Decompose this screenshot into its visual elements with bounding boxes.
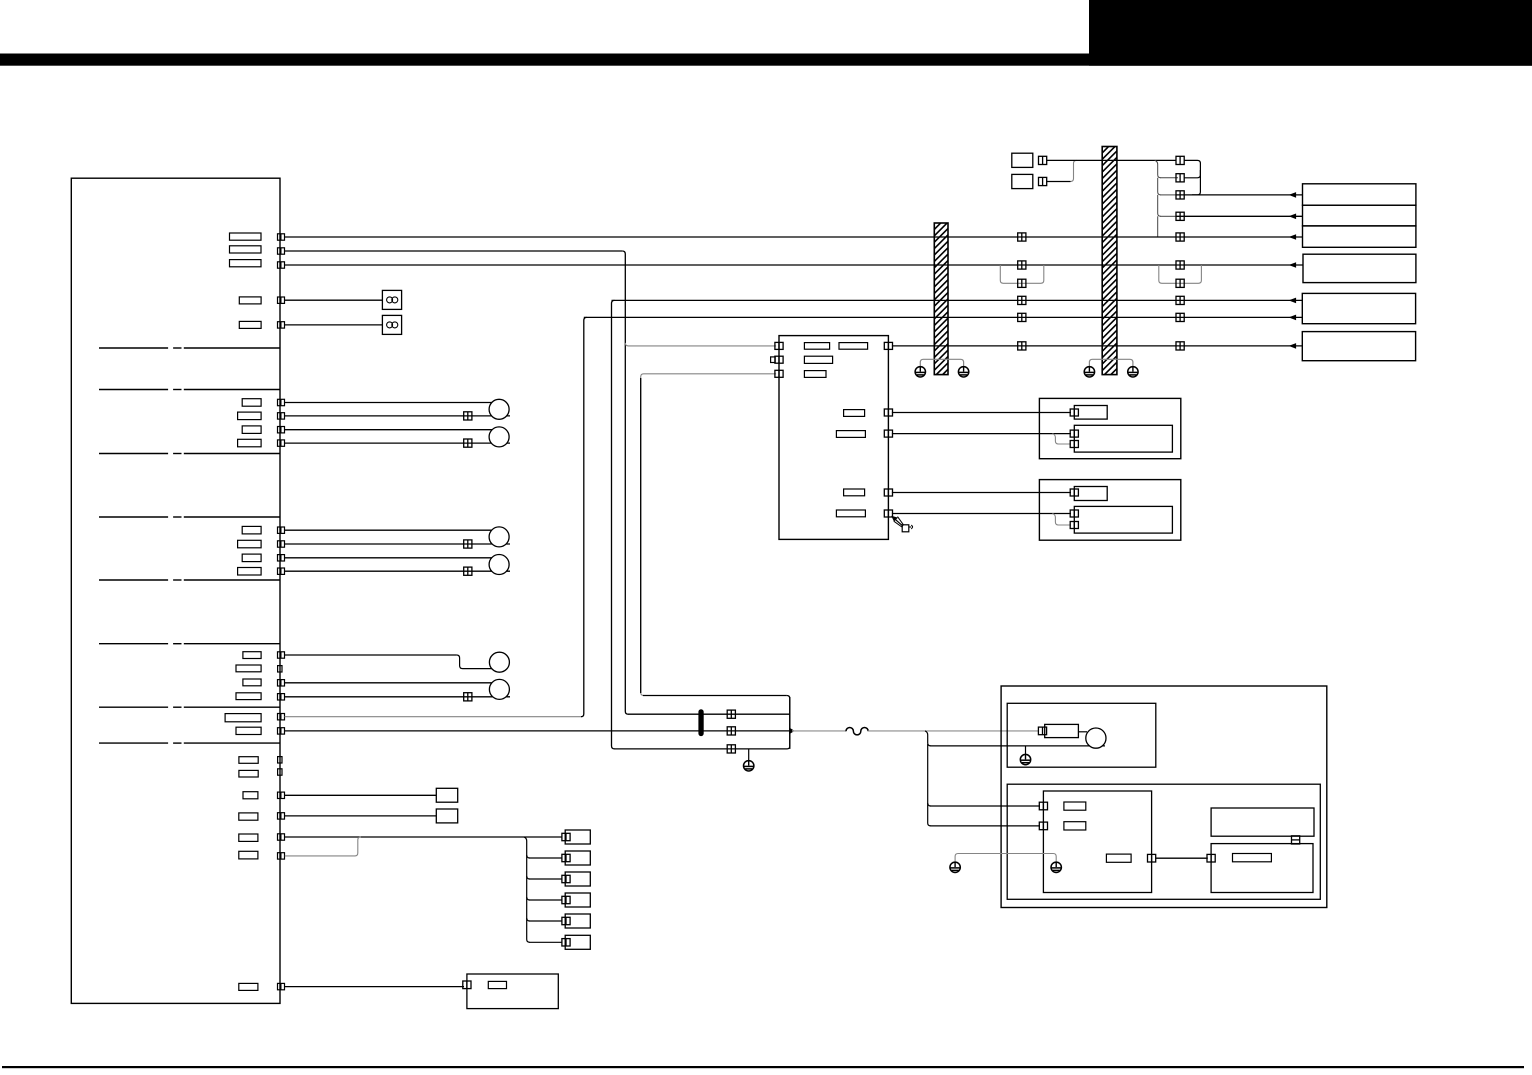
generator label 3: [1106, 854, 1131, 862]
control unit label 2: [839, 343, 868, 350]
ECU section divider 7: [99, 706, 168, 708]
ECU pin label 22: [243, 792, 258, 799]
ECU pin at y=300.2: [278, 297, 285, 303]
ECU pin at y=571.2: [278, 568, 285, 574]
ECU pin at y=696.8: [278, 694, 285, 700]
ECU pin label 9: [238, 439, 262, 447]
generator assembly box: [1007, 784, 1320, 899]
starter ground stub: [1025, 746, 1027, 755]
load box 1: [1303, 184, 1416, 205]
control unit pin3 wire down-feed: [641, 374, 776, 696]
ECU pin label 7: [238, 412, 262, 420]
ground stub on row D: [748, 749, 750, 761]
generator label 1: [1064, 802, 1086, 810]
load box 6: [1302, 332, 1415, 361]
ECU pin label 12: [242, 554, 261, 562]
control unit label 6: [836, 431, 865, 438]
regulator label: [1233, 854, 1272, 862]
wire from K2 joining K1 feed: [1047, 181, 1071, 183]
load box 2: [1303, 205, 1416, 226]
sensor unit 2: [565, 851, 590, 865]
relay module box B outer: [1039, 480, 1180, 541]
ECU pin label 18: [225, 714, 261, 722]
wire row2 connector loop: [1160, 177, 1178, 179]
ECU pin at y=986.6: [278, 983, 285, 989]
wire row5 main feed from ECU pin1 to load box 3: [285, 236, 1303, 238]
control unit right pin 5: [884, 510, 892, 517]
switch box 1: [436, 788, 457, 802]
adjuster arrow at control unit pin 5: [893, 518, 903, 527]
sensor branch wire 5: [529, 920, 562, 922]
relay box K1 top right: [1012, 153, 1033, 167]
connector at relay box K1: [1039, 156, 1047, 164]
page footer rule: [2, 1066, 1524, 1068]
control unit label 1: [804, 343, 829, 350]
ECU pin label 20: [239, 757, 258, 764]
ECU pin at y=837: [278, 834, 285, 840]
ECU pin at y=855.9: [278, 853, 285, 859]
ECU section divider 1: [99, 347, 168, 349]
ECU pin label 15: [236, 665, 261, 672]
junction arrow marker: [789, 728, 794, 735]
load box 3: [1303, 226, 1416, 247]
wire row8 to load box 5 upper: [612, 299, 1303, 301]
ECU pin label 23: [239, 813, 258, 820]
ECU pin at y=655: [278, 652, 285, 658]
ECU pin label 6: [242, 399, 261, 407]
wire to generator connector 2: [930, 825, 1040, 827]
ground bridge at bar 1: [920, 359, 963, 366]
ground at row D: [744, 761, 754, 771]
wire ECU pin y=730.9 main battery feed: [285, 730, 791, 732]
ECU pin label 24: [239, 834, 258, 841]
sensor branch wire 3: [529, 878, 562, 880]
wire to switch box 1: [285, 794, 437, 796]
page header black band: [0, 54, 1532, 66]
lamp B1: [489, 527, 509, 547]
branch vertical to charge boxes: [925, 731, 931, 746]
wire to generator connector 1: [930, 805, 1040, 807]
control unit right pin 1: [884, 342, 892, 349]
ECU pin at y=815.9: [278, 813, 285, 819]
noise filter 2: [382, 315, 401, 334]
ECU pin label 26: [239, 983, 258, 990]
sensor unit 4: [565, 893, 590, 907]
ECU section divider 6: [99, 643, 168, 645]
indicator lamp group C wires: [285, 654, 457, 656]
battery trunk wire with break symbol: [792, 730, 846, 732]
junction rail merge wires: [643, 695, 787, 697]
sensor bus wire from ECU: [285, 836, 563, 838]
ECU section divider 4: [99, 516, 168, 518]
ECU pin at y=429.7: [278, 427, 285, 433]
wire row1 from K1 to right connector: [1047, 159, 1177, 161]
ECU pin label 3: [230, 260, 262, 267]
switch box 2: [436, 809, 457, 823]
relay box K2 top right: [1012, 174, 1033, 188]
box A large component: [1074, 425, 1172, 452]
ECU pin at y=682.8: [278, 680, 285, 686]
gray return wire joining bus: [285, 855, 355, 857]
starter motor circle: [1086, 728, 1106, 748]
ECU main unit box: [71, 178, 280, 1003]
ECU pin at y=730.9: [278, 728, 285, 734]
ECU pin at y=251: [278, 248, 285, 254]
ECU pin label 2: [230, 246, 262, 253]
ECU section divider 2: [99, 389, 168, 391]
diagnostic unit label: [488, 981, 506, 988]
wire row4 to load box 2: [1160, 215, 1176, 217]
ECU pin at y=544: [278, 541, 285, 547]
branch loop in box A: [1052, 434, 1071, 444]
ECU pin label 11: [238, 540, 262, 548]
generator main box: [1043, 791, 1151, 893]
regulator connector: [1207, 854, 1215, 862]
ECU pin at y=716.7: [278, 714, 285, 720]
lamp C1: [489, 652, 509, 672]
connector at relay box K2: [1039, 177, 1047, 185]
control unit right pin 3: [884, 430, 892, 437]
relay module box A outer: [1039, 398, 1180, 458]
ground right of bar 1: [958, 367, 968, 377]
control unit label 8: [836, 510, 865, 517]
load box 5: [1302, 293, 1415, 323]
wire control pin3 to box A large: [892, 433, 1071, 435]
ECU unused pin at y=668.8: [278, 666, 282, 672]
branch to control unit pin1: [625, 343, 776, 346]
box A small component: [1074, 406, 1107, 420]
box B large component: [1074, 506, 1172, 533]
regulator lower box: [1211, 844, 1313, 893]
starter solenoid component: [1045, 724, 1079, 737]
ECU pin label 1: [230, 233, 262, 240]
wire to switch box 2: [285, 815, 437, 817]
ECU pin label 4: [239, 297, 261, 304]
control unit label 3: [804, 356, 832, 363]
sensor unit 3: [565, 872, 590, 886]
ECU pin at y=530.2: [278, 527, 285, 533]
control unit box: [779, 336, 888, 540]
noise filter wire 2: [285, 324, 383, 326]
sensor branch wire 4: [529, 899, 562, 901]
ECU pin at y=237: [278, 234, 285, 240]
vertical feed x=611.5 row8 to fuse row: [612, 300, 615, 749]
wire generator to regulator: [1155, 857, 1207, 859]
row6 parallel connector loop right of bar2: [1159, 265, 1202, 283]
ECU pin at y=265: [278, 262, 285, 268]
control unit label 7: [844, 489, 865, 496]
generator ground bridge: [955, 854, 1056, 863]
wire control pin4 to box B small: [892, 492, 1071, 494]
load box 4: [1303, 254, 1416, 282]
generator label 2: [1064, 822, 1086, 830]
ECU pin at y=795.3: [278, 792, 285, 798]
box B small component: [1074, 487, 1107, 501]
indicator lamp group B wires: [285, 529, 494, 531]
starter ground: [1020, 754, 1030, 764]
control unit right pin 2: [884, 409, 892, 416]
control unit label 4: [804, 371, 826, 378]
wire to diagnostic unit: [285, 986, 465, 988]
wire row9 to load box 5 lower: [584, 316, 1303, 318]
ground outside engine box: [950, 862, 960, 872]
ECU pin label 21: [239, 770, 258, 777]
page header black title block top right: [1089, 0, 1532, 66]
sensor unit 6: [565, 935, 590, 949]
sensor unit 1: [565, 830, 590, 844]
sensor branch wire 2: [529, 857, 562, 859]
wire row3 to load box 1: [1160, 194, 1176, 196]
wire ECU pin y=716.7 up-feed to row9: [285, 716, 582, 718]
starter motor wire: [1078, 731, 1087, 733]
wire control pin5 to box B large: [892, 513, 1071, 515]
ECU pin label 5: [239, 321, 261, 328]
ECU section divider 3: [99, 453, 168, 455]
lamp B2: [489, 555, 509, 575]
ECU pin at y=443.1: [278, 440, 285, 446]
connector on feed row B: [727, 710, 735, 718]
ground left of bar 2: [1084, 367, 1094, 377]
control unit left pin 2 with stub plug: [775, 356, 783, 363]
regulator upper box: [1211, 808, 1314, 836]
wire control pin2 to box A small: [892, 412, 1071, 414]
connector on feed row D: [727, 745, 735, 753]
wire ECU pin2 down-feed: [285, 250, 623, 252]
ECU pin label 25: [239, 851, 258, 859]
noise filter wire 1: [285, 299, 383, 301]
ground left of bar 1: [915, 367, 925, 377]
control unit label 5: [844, 410, 865, 417]
branch vertical down-feed right of bar 2: [1155, 160, 1161, 177]
ECU pin at y=402.5: [278, 399, 285, 405]
lamp A1: [489, 399, 509, 419]
ECU pin at y=557.8: [278, 555, 285, 561]
ECU section divider 5: [99, 579, 168, 581]
generator output connector: [1148, 854, 1156, 862]
diagnostic unit box: [467, 974, 558, 1009]
lamp C2: [489, 679, 509, 699]
ECU pin label 19: [236, 727, 261, 734]
connector on feed row C: [727, 727, 735, 735]
ECU pin at y=324.9: [278, 322, 285, 328]
connector row1 right of bar 2: [1176, 156, 1184, 164]
ECU section divider 8: [99, 742, 168, 744]
control unit left pin 1: [775, 342, 783, 349]
control unit right pin 4: [884, 489, 892, 496]
ECU pin label 14: [243, 652, 261, 659]
sensor unit 5: [565, 914, 590, 928]
ECU pin label 13: [238, 568, 262, 576]
ECU pin label 16: [243, 679, 261, 686]
ground inside generator: [1051, 862, 1061, 872]
wire row10 from control unit to load box 6: [892, 345, 1302, 347]
ECU pin label 17: [236, 693, 261, 700]
loop vertical joining row1 and row2 right side: [1184, 160, 1200, 177]
vertical connector between regulator boxes: [1292, 836, 1300, 844]
sensor bus drop vertical: [524, 837, 530, 942]
indicator lamp group A wires: [285, 402, 494, 404]
fusible link bar: [699, 710, 703, 736]
wire to starter sub connector: [930, 745, 1105, 747]
ground right of bar 2: [1128, 367, 1138, 377]
ECU pin at y=415.9: [278, 413, 285, 419]
ECU unused pin at y=772.0: [278, 769, 282, 775]
control unit left pin 3: [775, 370, 783, 377]
ground bridge at bar 2: [1089, 359, 1133, 366]
lamp A2: [489, 427, 509, 447]
ECU pin label 10: [242, 526, 261, 534]
ECU pin label 8: [242, 426, 261, 434]
row6 parallel connector loop between bars: [1000, 265, 1044, 283]
ECU unused pin at y=759.8: [278, 757, 282, 763]
sensor branch wire 6: [529, 941, 562, 943]
branch loop in box B: [1052, 514, 1071, 526]
wire row6 from ECU pin3 to load box 4: [285, 264, 1303, 266]
starter assembly box: [1007, 703, 1156, 767]
engine compartment outer box: [1001, 686, 1327, 908]
noise filter 1: [382, 290, 401, 309]
